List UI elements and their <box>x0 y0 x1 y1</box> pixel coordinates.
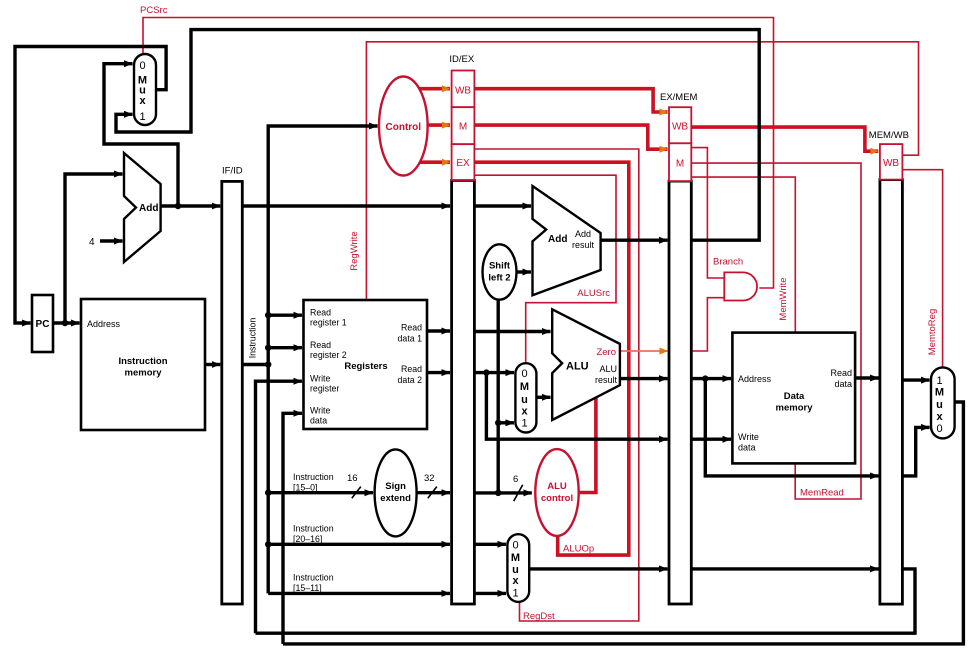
svg-text:x: x <box>139 95 146 107</box>
svg-text:ALUSrc: ALUSrc <box>577 288 610 299</box>
svg-text:Sign: Sign <box>385 481 406 492</box>
wire instruction to read register 2 <box>268 346 302 349</box>
wire ALU result EX/MEM to data memory address <box>691 377 731 380</box>
wire instruction[15-0] to sign extend <box>268 491 373 494</box>
svg-text:data 1: data 1 <box>398 334 423 344</box>
wire Control to ID/EX.EX <box>420 160 450 164</box>
svg-text:Read: Read <box>401 323 422 333</box>
instruction memory <box>81 299 205 430</box>
svg-text:Instruction: Instruction <box>293 524 334 534</box>
MemtoReg mux <box>931 367 955 438</box>
svg-text:Write: Write <box>310 406 330 416</box>
wire read data 2 to ID/EX <box>427 371 450 374</box>
ID/EX pipeline register <box>449 54 474 604</box>
svg-text:Data: Data <box>784 391 805 402</box>
wire data memory read data to MEM/WB <box>855 376 878 379</box>
svg-text:MemRead: MemRead <box>800 488 844 499</box>
svg-text:u: u <box>936 399 943 411</box>
Control unit <box>379 77 428 176</box>
svg-text:[20–16]: [20–16] <box>293 534 322 544</box>
wire WB chain EX/MEM to MEM/WB.WB <box>691 127 878 151</box>
svg-text:M: M <box>935 387 944 399</box>
wire PC mux output loop to PC <box>15 47 166 324</box>
svg-text:PCSrc: PCSrc <box>140 5 168 16</box>
wire PCSrc: AND gate output up over top to PC mux select <box>143 18 774 289</box>
Add (PC+4 adder) <box>124 153 161 262</box>
svg-text:MemtoReg: MemtoReg <box>927 309 938 355</box>
svg-text:IF/ID: IF/ID <box>222 166 243 177</box>
wire read data 2 ID/EX to ALUSrc mux 0 <box>474 371 514 374</box>
svg-text:u: u <box>521 394 528 406</box>
wire WB chain ID/EX to EX/MEM.WB <box>474 89 667 112</box>
wire ALUSrc mux to ALU <box>536 396 550 399</box>
Shift left 2 <box>483 244 517 299</box>
wire ALUOp: ID/EX.EX to ALU control <box>474 162 628 555</box>
wire constant 4 to Add <box>100 239 123 242</box>
svg-text:4: 4 <box>89 237 95 248</box>
wire sign extend value ID/EX to ALU control <box>474 491 531 494</box>
svg-text:[15–0]: [15–0] <box>293 483 317 493</box>
wire PC value up to Add <box>65 174 123 323</box>
svg-text:data: data <box>310 416 327 426</box>
svg-text:1: 1 <box>512 588 518 600</box>
svg-text:Instruction: Instruction <box>293 573 334 583</box>
svg-text:Branch: Branch <box>713 257 743 268</box>
wire ALU result bypass to MEM/WB <box>705 379 878 476</box>
svg-text:1: 1 <box>936 375 942 387</box>
svg-text:M: M <box>511 552 520 564</box>
svg-text:EX/MEM: EX/MEM <box>660 92 698 103</box>
svg-text:Address: Address <box>738 374 772 384</box>
svg-text:WB: WB <box>883 158 899 169</box>
wire write data EX/MEM to data memory <box>691 438 731 441</box>
svg-text:ALU: ALU <box>599 364 617 374</box>
svg-text:[15–11]: [15–11] <box>293 583 322 593</box>
wire Zero: EX/MEM to AND gate input <box>691 298 724 351</box>
svg-text:Read: Read <box>830 368 852 378</box>
THIN RED CONTROL WIRES <box>143 18 943 622</box>
wire MemRead: EX/MEM.M to data memory read port <box>691 163 861 499</box>
wire ALU result to EX/MEM <box>620 377 668 380</box>
wire read data MEM/WB to MemtoReg mux 1 <box>902 378 929 381</box>
wire PC+4 ID/EX to branch Add <box>474 204 531 207</box>
svg-text:M: M <box>459 122 467 133</box>
branch Add (Add result) <box>533 186 601 295</box>
PC register <box>32 295 53 352</box>
branch AND gate <box>724 272 757 300</box>
wire shift left 2 to branch Add <box>517 270 532 273</box>
svg-text:Add: Add <box>139 203 158 214</box>
PCSrc mux <box>134 54 156 125</box>
wire write data from MemtoReg mux bottom <box>283 402 963 644</box>
svg-text:result: result <box>595 375 618 385</box>
wire read data 1 to ID/EX <box>427 329 450 332</box>
svg-text:RegWrite: RegWrite <box>349 231 360 270</box>
svg-text:WB: WB <box>455 86 471 97</box>
svg-text:Instruction: Instruction <box>248 318 258 359</box>
wire Add output (PC+4) to IF/ID <box>161 204 221 207</box>
svg-text:Read: Read <box>310 308 331 318</box>
Sign extend <box>375 449 417 536</box>
data memory <box>732 333 855 464</box>
svg-text:Shift: Shift <box>489 261 511 272</box>
ALU control <box>535 449 578 536</box>
svg-text:Address: Address <box>87 319 121 329</box>
svg-text:Read: Read <box>310 340 331 350</box>
wire ALU result MEM/WB to MemtoReg mux 0 <box>902 427 929 476</box>
svg-text:Add: Add <box>575 229 591 239</box>
svg-text:x: x <box>521 406 528 418</box>
svg-text:Instruction: Instruction <box>293 472 334 482</box>
wire ALU control output to ALU <box>579 398 596 493</box>
svg-text:0: 0 <box>139 60 145 72</box>
wire write register number from MEM/WB bottom <box>256 569 916 633</box>
svg-text:data: data <box>834 379 852 389</box>
svg-text:1: 1 <box>139 111 145 123</box>
svg-text:register: register <box>310 384 339 394</box>
svg-text:Registers: Registers <box>344 361 387 372</box>
ALU <box>552 309 620 420</box>
svg-text:register 2: register 2 <box>310 350 347 360</box>
svg-text:Control: Control <box>386 122 422 133</box>
svg-text:Write: Write <box>310 374 330 384</box>
svg-text:1: 1 <box>521 418 527 430</box>
wire RegWrite: MEM/WB.WB to Registers <box>366 42 918 300</box>
svg-text:EX: EX <box>456 158 470 169</box>
svg-text:ALUOp: ALUOp <box>563 544 594 555</box>
svg-text:PC: PC <box>36 319 50 330</box>
wire Zero: ALU zero output to EX/MEM (salmon) <box>620 350 668 352</box>
IF/ID pipeline register <box>222 166 243 605</box>
wire sign extend value to ALUSrc mux 1 <box>498 421 514 424</box>
THICK RED CONTROL WIRES <box>419 89 878 555</box>
wire instruction memory to IF/ID <box>205 363 220 366</box>
wire Control to ID/EX.M <box>428 123 450 127</box>
svg-text:0: 0 <box>521 368 527 380</box>
wire Control to ID/EX.WB <box>419 87 450 91</box>
svg-text:WB: WB <box>672 122 688 133</box>
RegDst mux <box>507 534 529 602</box>
wire branch Add result to EX/MEM <box>601 238 668 241</box>
wire instruction[15-11] ID/EX to RegDst mux 1 <box>474 592 506 595</box>
wire read data 1 ID/EX to ALU <box>474 330 550 333</box>
wire instruction[20-16] to ID/EX <box>268 543 450 546</box>
wire Branch: EX/MEM.M to AND gate input <box>691 148 724 278</box>
wire instruction to read register 1 <box>268 314 302 317</box>
svg-text:memory: memory <box>125 368 163 379</box>
wire instruction[20-16] ID/EX to RegDst mux 0 <box>474 543 506 546</box>
svg-text:16: 16 <box>347 473 358 484</box>
wire write register number return to Registers <box>256 381 303 633</box>
ALUSrc mux <box>515 363 536 432</box>
svg-text:memory: memory <box>776 403 814 414</box>
svg-text:ID/EX: ID/EX <box>449 54 474 65</box>
wire PC+4 to PC mux input 0 <box>104 64 178 206</box>
wire ALUSrc: ID/EX.EX to ALUSrc mux select <box>474 175 616 363</box>
wire branch target: EX/MEM around top to PC mux input 1 <box>116 30 759 241</box>
svg-text:Zero: Zero <box>596 347 616 358</box>
wire RegDst: ID/EX.EX to RegDst mux select <box>474 149 638 621</box>
svg-text:result: result <box>572 240 595 250</box>
wire PC+4 IF/ID to ID/EX <box>242 204 450 207</box>
wire MemWrite: EX/MEM.M to data memory write port <box>691 177 795 333</box>
svg-text:data: data <box>738 443 756 453</box>
svg-text:0: 0 <box>512 539 518 551</box>
wire MemtoReg: MEM/WB.WB to MemtoReg mux select <box>902 170 942 368</box>
wire sign extend value up to shift left 2 <box>497 300 500 493</box>
svg-text:MemWrite: MemWrite <box>778 277 789 320</box>
svg-text:6: 6 <box>513 474 518 485</box>
wire instruction out of IF/ID <box>242 363 268 366</box>
bus width labels 16 / 32 / 6 with slashes <box>352 485 523 501</box>
svg-text:ALU: ALU <box>566 361 589 373</box>
svg-text:register 1: register 1 <box>310 318 347 328</box>
wire M chain ID/EX to EX/MEM.M <box>474 125 667 149</box>
svg-text:MEM/WB: MEM/WB <box>869 130 909 141</box>
svg-text:RegDst: RegDst <box>523 611 555 622</box>
svg-text:x: x <box>936 411 943 423</box>
svg-text:Instruction: Instruction <box>118 356 167 367</box>
svg-text:M: M <box>520 381 529 393</box>
wire instruction bus vertical to Control <box>268 126 377 593</box>
svg-text:left 2: left 2 <box>488 273 510 284</box>
svg-text:32: 32 <box>424 473 435 484</box>
svg-text:data 2: data 2 <box>398 375 423 385</box>
wire PC to instruction memory address <box>53 321 80 324</box>
svg-text:Write: Write <box>738 432 759 442</box>
wire sign extend output to ID/EX <box>417 491 450 494</box>
Registers file <box>304 300 428 429</box>
wire write register number EX/MEM to MEM/WB <box>691 567 878 570</box>
wire write data return to Registers <box>283 413 302 644</box>
svg-text:extend: extend <box>380 493 411 504</box>
svg-text:0: 0 <box>936 423 942 435</box>
svg-text:x: x <box>512 575 519 587</box>
EX/MEM pipeline register <box>660 92 698 604</box>
wire instruction[15-11] to ID/EX <box>268 592 450 595</box>
svg-text:control: control <box>541 493 573 504</box>
svg-text:Add: Add <box>548 234 567 245</box>
wire RegDst mux output to EX/MEM <box>529 567 667 570</box>
svg-text:Read: Read <box>401 364 422 374</box>
svg-text:ALU: ALU <box>547 481 567 492</box>
wire read data 2 down to EX/MEM write data <box>486 373 667 440</box>
MEM/WB pipeline register <box>869 130 909 604</box>
svg-text:M: M <box>676 159 684 170</box>
